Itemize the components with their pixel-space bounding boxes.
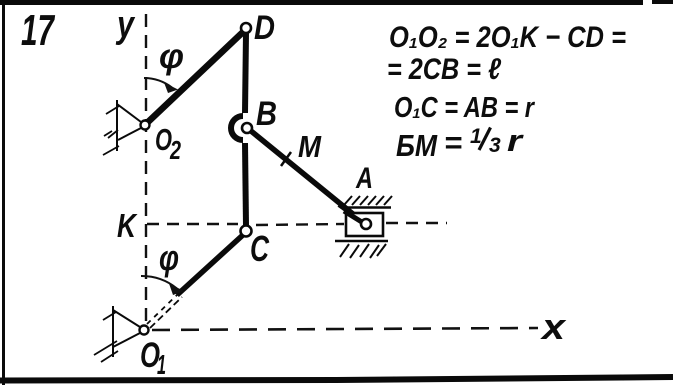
angle arc phi at O2 [144, 78, 172, 88]
svg-text:D: D [254, 9, 275, 47]
link B-C (lower part of DC rod) [245, 143, 246, 226]
crank link O2-D [148, 32, 243, 122]
svg-text:C: C [250, 228, 270, 269]
revolute joint B [242, 123, 252, 133]
slider guide upper hatching [344, 196, 392, 205]
svg-text:B: B [256, 95, 277, 133]
joint B fork arc [231, 116, 243, 140]
svg-text:O₁C = AB = r: O₁C = AB = r [394, 92, 535, 124]
crank link O1-C (thick part) [177, 234, 244, 295]
slider guide upper line [341, 206, 391, 209]
svg-text:БM: БM [396, 128, 438, 163]
tick mark at point M [281, 152, 291, 166]
revolute joint D [241, 23, 251, 33]
slider guide lower hatching [340, 244, 386, 258]
fixed pivot O2: pin circle [141, 121, 150, 130]
slider block at A [346, 213, 383, 236]
svg-text:x: x [540, 306, 568, 347]
arrowhead of phi arc at O2 [164, 83, 178, 94]
top border bar [0, 0, 673, 5]
svg-text:K: K [117, 207, 138, 244]
svg-text:=: = [444, 125, 462, 160]
bottom border bar [0, 377, 673, 381]
svg-text:= 2CB = ℓ: = 2CB = ℓ [387, 53, 501, 86]
link D-B (upper part of DC rod) [245, 33, 246, 113]
x-axis dashed line [152, 328, 538, 330]
y-axis dashed line [145, 14, 147, 322]
svg-text:O₁O₂ = 2O₁K − CD =: O₁O₂ = 2O₁K − CD = [389, 21, 626, 54]
svg-text:φ: φ [159, 237, 179, 278]
left border bar [2, 0, 5, 385]
revolute joint C [241, 226, 252, 237]
rod end inside slider block [344, 211, 365, 224]
fixed pivot O1: hatching [94, 312, 118, 362]
angle arc phi at O1 [141, 276, 177, 289]
crank link O1-C sketchy dashed end near O1 [147, 293, 182, 328]
svg-text:r: r [507, 123, 524, 158]
fixed pivot O1: pin circle [140, 326, 149, 335]
svg-text:y: y [115, 4, 135, 46]
svg-text:φ: φ [159, 37, 184, 76]
slider guide lower line [335, 240, 388, 243]
connecting rod B-A with point M [251, 131, 364, 223]
sketch double stroke of rod near slider [338, 206, 359, 221]
svg-text:1: 1 [470, 125, 482, 148]
svg-text:3: 3 [489, 134, 501, 157]
svg-text:M: M [298, 129, 322, 164]
slider pin A [361, 219, 371, 229]
fixed pivot O1: support triangle [113, 306, 140, 357]
svg-text:1: 1 [157, 349, 166, 380]
K level dashed line [147, 223, 447, 225]
svg-text:2: 2 [169, 135, 181, 165]
svg-text:A: A [355, 162, 373, 195]
fixed pivot O2: hatching [103, 106, 119, 155]
svg-text:17: 17 [21, 6, 56, 55]
fixed pivot O2: support triangle [117, 100, 141, 151]
arrowhead of phi arc at O1 [169, 284, 184, 296]
